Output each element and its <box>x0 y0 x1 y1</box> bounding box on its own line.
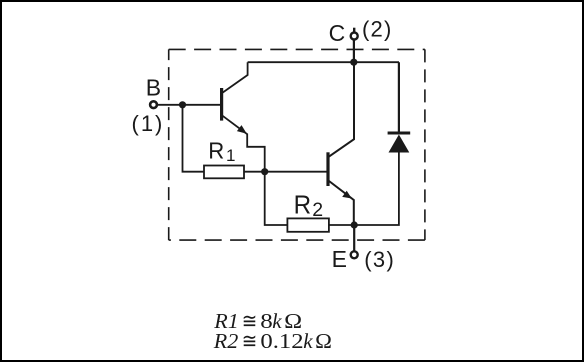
C terminal stub above circle <box>353 28 355 32</box>
node J1 dot <box>261 168 268 175</box>
svg-text:2: 2 <box>312 199 323 221</box>
node: B junction dot <box>179 101 186 108</box>
svg-text:C: C <box>329 20 346 46</box>
wire: R2 right to emitter node <box>329 224 354 226</box>
wire: J1 to Q2 base <box>265 171 327 173</box>
terminal C circle <box>351 33 358 40</box>
diode D1 triangle <box>389 135 410 153</box>
terminal E circle <box>351 251 358 258</box>
resistor R1 <box>204 166 244 179</box>
node: emitter junction dot <box>351 221 358 228</box>
transistor Q2 collector <box>329 65 354 157</box>
wire: emitter node down to E terminal <box>353 225 355 251</box>
transistor Q1 emitter <box>223 116 265 172</box>
transistor Q2 base bar <box>326 152 329 186</box>
wire: R1 right to node J1 <box>244 171 265 173</box>
svg-text:R: R <box>294 191 312 219</box>
wire: diode top to top rail <box>398 62 400 133</box>
svg-text:1: 1 <box>226 146 235 165</box>
resistor R2 <box>287 218 329 231</box>
svg-text:R: R <box>208 137 224 163</box>
svg-text:E: E <box>332 246 347 272</box>
svg-text:(3): (3) <box>364 247 395 272</box>
wire: J1 down to R2 left <box>265 172 288 225</box>
transistor Q2 emitter <box>329 181 354 225</box>
wire: emitter node to diode bottom <box>354 152 399 225</box>
svg-text:(1): (1) <box>132 111 165 136</box>
Q2 emitter arrow <box>342 191 352 199</box>
wire: B node down to R1 left <box>183 105 205 172</box>
diode D1 cathode bar <box>388 132 411 135</box>
terminal B circle <box>150 101 157 108</box>
wire: C terminal down to collector node <box>353 40 355 62</box>
node: collector junction dot <box>350 59 357 66</box>
wire: base node to Q1 base <box>183 104 221 106</box>
dashed package outline box <box>169 49 425 240</box>
transistor Q1 collector <box>223 62 248 92</box>
Q1 emitter arrow <box>237 125 247 134</box>
top rail: Q1 collector to diode branch <box>248 61 399 63</box>
svg-text:(2): (2) <box>362 17 393 42</box>
wire: B terminal to base node <box>157 104 183 106</box>
svg-text:B: B <box>146 75 161 101</box>
transistor Q1 base bar <box>220 88 223 121</box>
